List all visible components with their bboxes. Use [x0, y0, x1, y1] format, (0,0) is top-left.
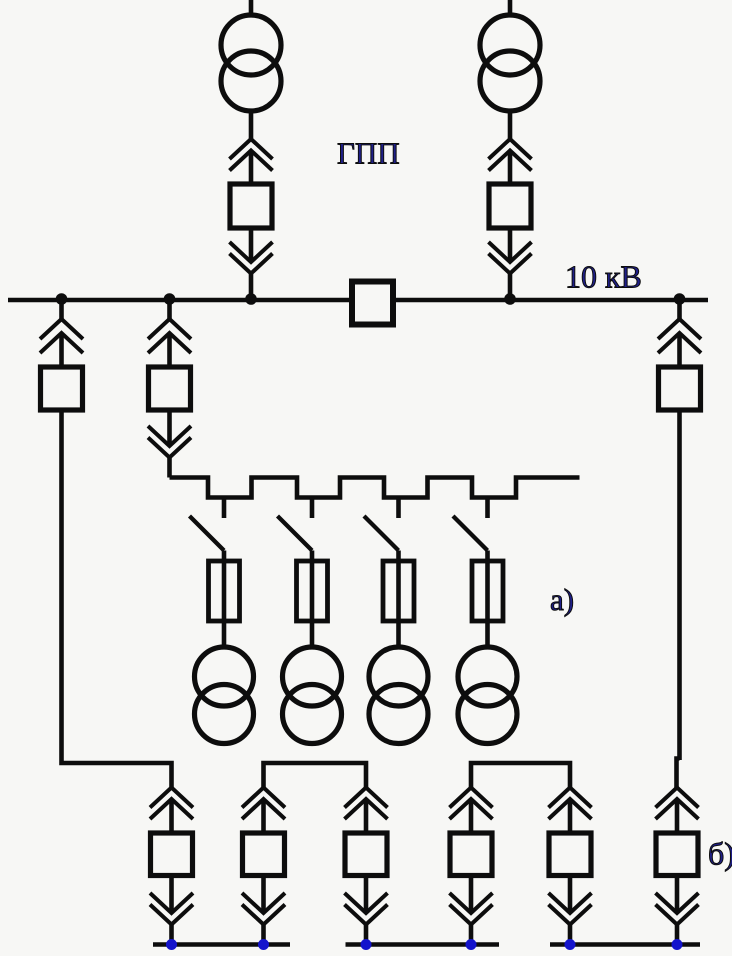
svg-text:б): б): [708, 836, 732, 872]
svg-text:10 кВ: 10 кВ: [565, 259, 642, 295]
svg-text:а): а): [550, 582, 574, 617]
svg-text:ГПП: ГПП: [337, 136, 400, 171]
